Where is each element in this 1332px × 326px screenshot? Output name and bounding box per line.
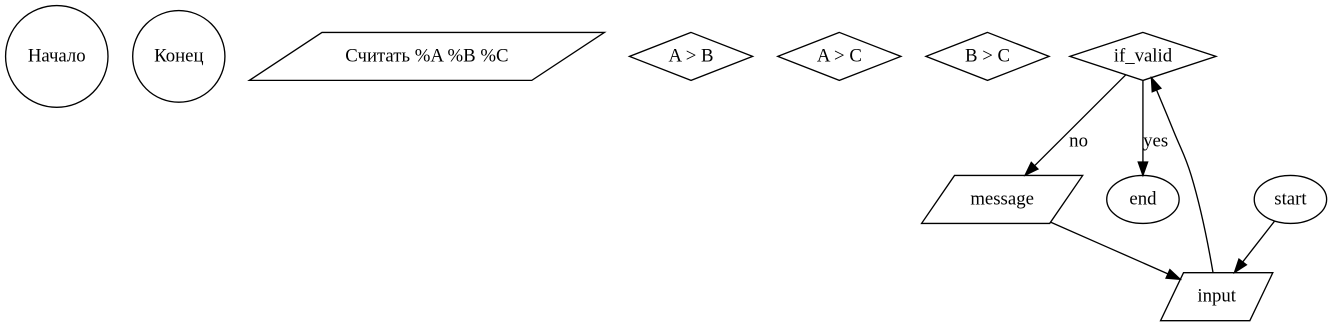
svg-text:Конец: Конец (154, 45, 203, 66)
svg-text:Считать %A %B %C: Считать %A %B %C (345, 45, 508, 66)
svg-text:message: message (970, 188, 1034, 209)
svg-text:if_valid: if_valid (1114, 45, 1173, 66)
svg-text:B > C: B > C (965, 45, 1010, 66)
svg-text:no: no (1069, 130, 1088, 151)
svg-text:input: input (1197, 286, 1236, 307)
svg-text:end: end (1129, 188, 1157, 209)
svg-text:start: start (1274, 188, 1307, 209)
svg-text:A > C: A > C (817, 45, 862, 66)
svg-text:A > B: A > B (669, 45, 714, 66)
svg-text:yes: yes (1143, 130, 1168, 151)
svg-text:Начало: Начало (28, 45, 86, 66)
